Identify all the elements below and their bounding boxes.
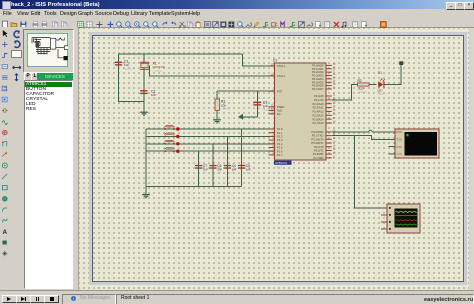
svg-text:P2.1/A9: P2.1/A9 bbox=[314, 98, 324, 102]
svg-text:<TEXT>: <TEXT> bbox=[153, 69, 164, 73]
svg-text:P3.2/INT0: P3.2/INT0 bbox=[311, 137, 324, 141]
svg-text:P3.6/WR: P3.6/WR bbox=[313, 152, 324, 156]
svg-text:A: A bbox=[2, 229, 7, 236]
svg-text:RST: RST bbox=[277, 89, 283, 93]
svg-text:P0.7/AD7: P0.7/AD7 bbox=[312, 87, 324, 91]
svg-text:32: 32 bbox=[333, 88, 336, 90]
svg-text:P2.5/A13: P2.5/A13 bbox=[312, 113, 324, 117]
svg-text:R2: R2 bbox=[358, 79, 362, 83]
svg-text:P2.2/A10: P2.2/A10 bbox=[312, 102, 324, 106]
svg-text:P3.1/TXD: P3.1/TXD bbox=[312, 134, 324, 138]
svg-text:15: 15 bbox=[333, 149, 336, 151]
svg-text:16: 16 bbox=[333, 153, 336, 155]
svg-text:P2.4/A12: P2.4/A12 bbox=[312, 110, 324, 114]
svg-text:14: 14 bbox=[333, 145, 336, 147]
svg-text:TXD: TXD bbox=[397, 138, 402, 142]
svg-text:XTAL2: XTAL2 bbox=[277, 74, 286, 78]
svg-text:RXD: RXD bbox=[397, 130, 403, 134]
svg-text:33: 33 bbox=[333, 84, 336, 86]
svg-text:P1.7: P1.7 bbox=[277, 153, 283, 157]
svg-text:36: 36 bbox=[333, 74, 336, 76]
svg-text:12: 12 bbox=[333, 138, 336, 140]
svg-text:P1.4: P1.4 bbox=[277, 142, 283, 146]
svg-text:ALE: ALE bbox=[277, 109, 282, 113]
svg-text:24: 24 bbox=[333, 106, 336, 108]
svg-text:1nF: 1nF bbox=[232, 168, 237, 172]
svg-text:39: 39 bbox=[333, 64, 336, 66]
svg-text:<TEXT>: <TEXT> bbox=[377, 92, 387, 96]
svg-text:AT89C51: AT89C51 bbox=[275, 161, 288, 165]
svg-text:<TEXT>: <TEXT> bbox=[358, 90, 368, 94]
svg-text:1nF: 1nF bbox=[246, 168, 251, 172]
svg-text:P3.4/T0: P3.4/T0 bbox=[314, 145, 324, 149]
svg-text:RTS: RTS bbox=[397, 145, 403, 149]
svg-text:D1: D1 bbox=[378, 71, 382, 75]
svg-text:21: 21 bbox=[333, 95, 336, 97]
svg-text:P1.3: P1.3 bbox=[277, 138, 283, 142]
svg-text:1nF: 1nF bbox=[217, 168, 222, 172]
svg-text:<T>: <T> bbox=[202, 171, 207, 175]
svg-text:<TEXT>: <TEXT> bbox=[274, 165, 285, 169]
svg-text:27: 27 bbox=[333, 118, 336, 120]
svg-text:1nF: 1nF bbox=[203, 168, 208, 172]
svg-text:13: 13 bbox=[333, 142, 336, 144]
svg-text:<T>: <T> bbox=[231, 171, 236, 175]
svg-text:P2.3/A11: P2.3/A11 bbox=[313, 106, 324, 110]
svg-text:P1.6: P1.6 bbox=[277, 149, 283, 153]
svg-text:EA: EA bbox=[277, 112, 281, 116]
svg-text:<TEXT>: <TEXT> bbox=[123, 67, 134, 71]
svg-text:P3.0/RXD: P3.0/RXD bbox=[312, 130, 324, 134]
svg-text:28: 28 bbox=[333, 122, 336, 124]
svg-text:P2.6/A14: P2.6/A14 bbox=[312, 117, 324, 121]
svg-text:P1.2: P1.2 bbox=[277, 135, 283, 139]
svg-text:23: 23 bbox=[333, 102, 336, 104]
svg-text:26: 26 bbox=[333, 114, 336, 116]
svg-text:LED: LED bbox=[377, 89, 383, 93]
svg-text:<T>: <T> bbox=[216, 171, 221, 175]
svg-text:CTS: CTS bbox=[397, 152, 403, 156]
svg-text:XTAL1: XTAL1 bbox=[277, 64, 286, 68]
svg-text:P3.7/RD: P3.7/RD bbox=[313, 156, 323, 160]
svg-text:34: 34 bbox=[333, 81, 336, 83]
svg-text:<TEXT>: <TEXT> bbox=[151, 97, 162, 101]
svg-text:P1.1: P1.1 bbox=[277, 131, 283, 135]
svg-text:25: 25 bbox=[333, 110, 336, 112]
svg-text:P2.0/A8: P2.0/A8 bbox=[314, 94, 324, 98]
svg-text:P3.3/INT1: P3.3/INT1 bbox=[311, 141, 324, 145]
svg-text:220: 220 bbox=[359, 87, 364, 91]
svg-text:38: 38 bbox=[333, 67, 336, 69]
svg-text:37: 37 bbox=[333, 71, 336, 73]
svg-text:<T>: <T> bbox=[245, 171, 250, 175]
svg-text:PSEN: PSEN bbox=[277, 105, 284, 109]
svg-text:P1.5: P1.5 bbox=[277, 146, 283, 150]
svg-text:<TEXT>: <TEXT> bbox=[220, 107, 231, 111]
svg-text:17: 17 bbox=[333, 156, 336, 158]
svg-text:P3.5/T1: P3.5/T1 bbox=[314, 149, 324, 153]
svg-text:P1.0: P1.0 bbox=[277, 127, 283, 131]
svg-text:U1: U1 bbox=[273, 59, 277, 63]
svg-text:P2.7/A15: P2.7/A15 bbox=[312, 121, 324, 125]
svg-text:35: 35 bbox=[333, 77, 336, 79]
